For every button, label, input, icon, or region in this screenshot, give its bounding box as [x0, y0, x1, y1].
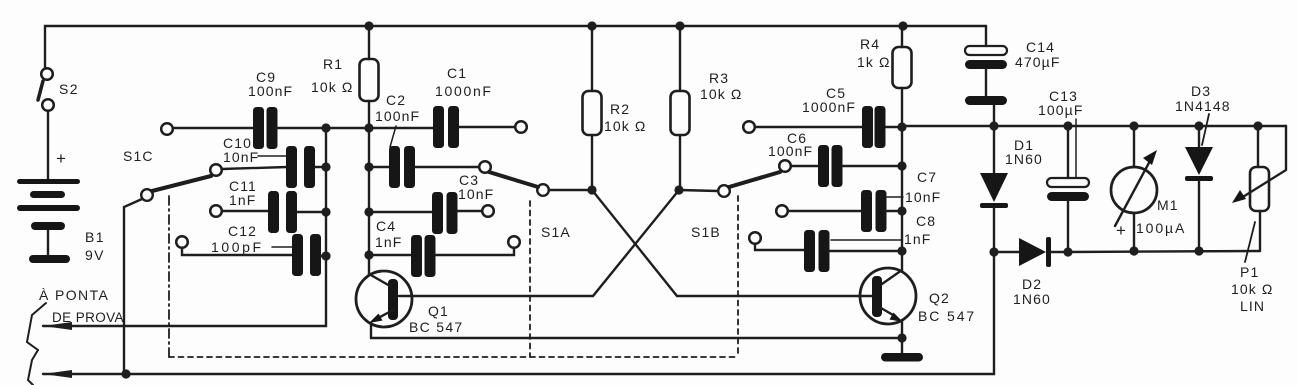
node bottom rail left: [121, 369, 130, 378]
svg-text:C7: C7: [917, 169, 937, 185]
probe tip squiggle lower: [28, 350, 38, 385]
node contact C3: [482, 205, 494, 217]
wire C12 left: [182, 248, 292, 255]
node emitter junction: [897, 333, 906, 342]
capacitor C2: [389, 146, 415, 188]
svg-text:1nF: 1nF: [904, 231, 931, 247]
bottom rail arrow: [43, 370, 72, 378]
label leader C2: [390, 126, 396, 147]
wire R3 top: [679, 26, 681, 91]
probe arrow upper: [43, 322, 72, 330]
wire S1C pivot to ground bus: [124, 199, 142, 374]
svg-text:C2: C2: [386, 92, 406, 108]
node bus C11 row: [321, 207, 330, 216]
svg-text:R4: R4: [860, 36, 880, 52]
svg-text:10nF: 10nF: [458, 186, 494, 202]
wire S1B pivot to R3 node: [679, 190, 718, 191]
svg-text:Q2: Q2: [929, 290, 950, 306]
node bus C9 row: [321, 123, 330, 132]
svg-text:100nF: 100nF: [375, 108, 420, 124]
label leader C12: [272, 246, 292, 248]
node bus369 C3 row: [364, 207, 373, 216]
resistor R4: [893, 47, 912, 88]
wire right bottom vertical: [43, 252, 994, 374]
node contact C9: [161, 123, 173, 135]
wire R3 bottom: [679, 135, 681, 190]
node bus369 C2 row: [364, 162, 373, 171]
wire Q2 emitter down: [901, 321, 903, 354]
svg-text:470µF: 470µF: [1015, 54, 1060, 70]
switch S1B pivot: [718, 185, 730, 197]
wire R4 bottom / Q2 collector bus: [901, 88, 903, 270]
diode D1: [980, 126, 1008, 252]
node mid rail D1: [989, 121, 998, 130]
ground bar: [881, 353, 923, 362]
node bus369 C4 row: [364, 250, 373, 259]
svg-text:R3: R3: [709, 70, 729, 86]
wire C3 right: [457, 210, 482, 212]
svg-text:BC 547: BC 547: [409, 319, 464, 335]
svg-text:B1: B1: [85, 229, 105, 245]
svg-text:10k Ω: 10k Ω: [700, 86, 742, 102]
node bus902 C6 row: [897, 161, 906, 170]
wire C7 right: [885, 210, 902, 212]
node top rail R4: [898, 21, 907, 30]
wire X cross to Q2 base: [592, 190, 872, 296]
node brail C13: [1063, 247, 1072, 256]
potentiometer P1: [1232, 126, 1286, 262]
dashed link horizontal: [169, 356, 738, 358]
wire R2 bottom: [591, 135, 593, 190]
capacitor C10: [286, 146, 315, 188]
capacitor C8: [804, 230, 830, 272]
capacitor C1: [433, 106, 459, 148]
transistor Q1: [356, 271, 412, 327]
svg-text:1000nF: 1000nF: [802, 99, 856, 115]
wire C8 right: [829, 250, 902, 252]
label leader C10: [258, 155, 286, 157]
wire C12 right: [321, 255, 326, 257]
capacitor C4: [411, 235, 436, 277]
svg-text:1N60: 1N60: [1005, 151, 1043, 167]
wire C2 row: [369, 166, 389, 168]
svg-text:P1: P1: [1240, 264, 1259, 280]
node top rail R1: [364, 21, 373, 30]
svg-text:100µA: 100µA: [1136, 220, 1186, 236]
wire C5 row: [755, 126, 862, 128]
wire C4 right: [435, 248, 514, 255]
node contact C6: [779, 160, 791, 172]
svg-text:9V: 9V: [85, 247, 105, 263]
svg-text:100µF: 100µF: [1038, 102, 1083, 118]
svg-text:D3: D3: [1191, 83, 1211, 99]
node D1 D2 junction: [989, 247, 998, 256]
wire R1 bottom / collector bus: [368, 101, 370, 274]
wire C10 left: [222, 167, 287, 169]
svg-text:Q1: Q1: [428, 303, 449, 319]
svg-text:BC 547: BC 547: [918, 308, 976, 324]
svg-text:10nF: 10nF: [223, 149, 259, 165]
wire R4 top: [901, 26, 903, 47]
resistor R3: [671, 91, 690, 135]
wire C9 row: [173, 127, 253, 129]
switch S1C pivot: [141, 189, 153, 201]
wire C7 row: [788, 210, 861, 212]
svg-text:D2: D2: [1022, 276, 1042, 292]
node brail M1: [1129, 246, 1138, 255]
diode D2: [994, 237, 1068, 267]
wire C1 row: [369, 127, 433, 129]
node bus902 C7 row: [897, 206, 906, 215]
svg-text:1nF: 1nF: [375, 234, 402, 250]
node contact C4: [508, 236, 520, 248]
diode D3: [1185, 114, 1213, 251]
svg-text:S2: S2: [59, 81, 79, 97]
dashed link S1C: [168, 196, 170, 357]
capacitor C5: [862, 106, 886, 148]
svg-text:+: +: [56, 149, 67, 168]
switch S1B lever: [729, 172, 780, 187]
node mid rail D3: [1194, 121, 1203, 130]
resistor R2: [583, 91, 602, 135]
battery B1: [17, 179, 80, 263]
node mid rail C13: [1063, 121, 1072, 130]
node contact C2: [479, 161, 491, 173]
node contact C11: [210, 205, 222, 217]
node contact C7: [776, 205, 788, 217]
svg-text:10k Ω: 10k Ω: [1231, 281, 1273, 297]
svg-text:+: +: [1116, 221, 1127, 240]
node bus C12 row: [321, 251, 330, 260]
svg-text:C1: C1: [447, 65, 467, 81]
switch S2: [38, 68, 54, 111]
svg-text:100nF: 100nF: [248, 83, 293, 99]
probe tip squiggle upper: [27, 303, 46, 350]
node contact C10: [210, 164, 222, 176]
wire C9 to buses: [277, 127, 369, 129]
svg-text:C12: C12: [228, 223, 257, 239]
capacitor C13: [1047, 119, 1089, 252]
capacitor C9: [253, 107, 278, 149]
wire Q1 emitter to Q2 emitter: [371, 324, 902, 338]
capacitor C6: [818, 145, 843, 187]
wire C5 right: [886, 126, 902, 128]
svg-text:LIN: LIN: [1240, 298, 1265, 314]
capacitor C12: [292, 234, 321, 276]
meter M1: [1111, 126, 1157, 251]
svg-text:10nF: 10nF: [905, 189, 941, 205]
wire mid rail: [902, 125, 1286, 127]
wire X cross to Q1 base: [399, 190, 679, 296]
capacitor C7: [861, 190, 887, 232]
svg-text:1nF: 1nF: [229, 192, 256, 208]
svg-text:C14: C14: [1026, 39, 1055, 55]
svg-text:100nF: 100nF: [768, 143, 813, 159]
switch S1A lever: [489, 172, 538, 187]
node top rail R2: [587, 21, 596, 30]
node contact C12: [176, 236, 188, 248]
capacitor C14: [965, 26, 1007, 126]
svg-text:R2: R2: [610, 101, 630, 117]
node bus902 C8 row: [897, 246, 906, 255]
svg-text:C4: C4: [376, 218, 396, 234]
node mid rail P1: [1253, 121, 1262, 130]
wire C11 right: [297, 211, 326, 213]
svg-text:R1: R1: [323, 56, 343, 72]
svg-text:1000nF: 1000nF: [435, 83, 493, 99]
switch S1C lever: [152, 176, 211, 191]
node bus902 C5 row: [897, 122, 906, 131]
resistor R1: [360, 59, 379, 101]
wire C6 right: [842, 165, 902, 167]
wire C8 left: [755, 244, 804, 250]
svg-text:M1: M1: [1157, 197, 1179, 213]
wire top rail: [45, 26, 986, 68]
node bus369 C1 row: [364, 123, 373, 132]
capacitor C11: [268, 191, 297, 233]
wire C10 right: [315, 166, 326, 168]
wire S2 to battery: [47, 111, 49, 179]
dashed link S1B: [737, 196, 739, 357]
label leader C7: [886, 196, 903, 198]
wire left bank bus to probe: [43, 128, 326, 326]
switch S1A pivot: [537, 184, 549, 196]
wire C3 row: [369, 211, 432, 213]
wire C6 row: [791, 165, 818, 167]
wire C4 row: [369, 254, 411, 256]
dashed link S1A: [529, 201, 531, 357]
svg-text:10k Ω: 10k Ω: [604, 118, 646, 134]
wire C11 left: [222, 210, 268, 212]
node mid rail M1: [1129, 121, 1138, 130]
svg-text:1N60: 1N60: [1013, 291, 1051, 307]
node contact C1: [515, 121, 527, 133]
wire bottom right rail: [1068, 251, 1260, 252]
transistor Q2: [860, 268, 916, 324]
svg-text:S1A: S1A: [541, 224, 571, 240]
node X right: [674, 185, 683, 194]
node contact C5: [743, 121, 755, 133]
svg-text:À PONTA: À PONTA: [39, 287, 109, 303]
wire C1 right: [459, 126, 515, 128]
wire battery internal stem: [47, 230, 49, 255]
label leader C8: [831, 239, 901, 241]
wire C2 right: [415, 166, 479, 168]
svg-text:S1B: S1B: [691, 224, 721, 240]
svg-text:DE PROVA: DE PROVA: [52, 310, 124, 325]
capacitor C3: [432, 192, 458, 234]
node brail D3: [1194, 246, 1203, 255]
wire R1 top: [368, 26, 370, 59]
svg-text:S1C: S1C: [123, 148, 154, 164]
node X left: [587, 185, 596, 194]
wire R2 top: [591, 26, 593, 91]
svg-text:C8: C8: [916, 213, 936, 229]
node contact C8: [749, 232, 761, 244]
svg-text:1k Ω: 1k Ω: [857, 54, 891, 70]
wire S1A pivot to R2 node: [549, 189, 592, 191]
svg-text:10k Ω: 10k Ω: [311, 79, 353, 95]
node top rail R3: [675, 21, 684, 30]
svg-text:100pF: 100pF: [211, 239, 264, 255]
node bus C10 row: [321, 162, 330, 171]
svg-text:1N4148: 1N4148: [1175, 98, 1231, 114]
